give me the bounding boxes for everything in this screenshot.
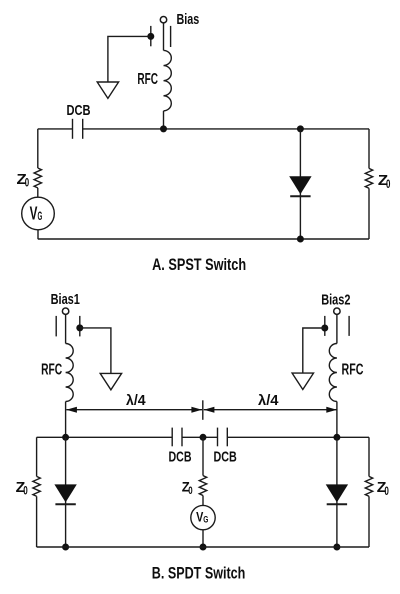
svg-text:DCB: DCB	[67, 102, 91, 119]
svg-text:DCB: DCB	[169, 448, 192, 465]
svg-text:G: G	[38, 211, 43, 223]
svg-text:0: 0	[386, 179, 390, 191]
svg-text:G: G	[203, 514, 208, 524]
svg-text:RFC: RFC	[41, 361, 62, 378]
svg-text:RFC: RFC	[342, 362, 364, 379]
svg-text:V: V	[30, 203, 38, 223]
svg-text:DCB: DCB	[214, 448, 237, 465]
svg-text:Bias1: Bias1	[51, 291, 80, 308]
svg-text:RFC: RFC	[137, 71, 158, 88]
svg-text:0: 0	[25, 177, 29, 189]
svg-text:Bias: Bias	[177, 11, 200, 28]
svg-text:0: 0	[23, 486, 28, 498]
svg-text:λ/4: λ/4	[126, 393, 146, 409]
svg-text:λ/4: λ/4	[258, 393, 279, 409]
svg-text:0: 0	[188, 485, 192, 497]
svg-text:B. SPDT Switch: B. SPDT Switch	[152, 564, 246, 583]
svg-text:0: 0	[384, 486, 389, 498]
svg-text:A. SPST Switch: A. SPST Switch	[152, 255, 246, 274]
svg-text:V: V	[196, 509, 203, 524]
svg-text:Bias2: Bias2	[321, 291, 350, 308]
